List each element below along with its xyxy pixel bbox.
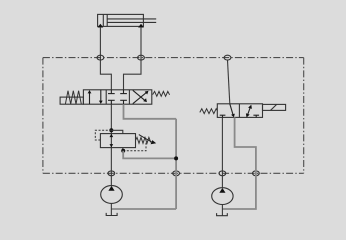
relief valve drain dashed xyxy=(123,143,146,151)
V1 center box blocked port A xyxy=(108,90,115,94)
boundary port ellipse (pilot top) xyxy=(224,55,231,60)
V2 right box flow arrow (double head) xyxy=(246,105,252,118)
wire V2 T jog to right xyxy=(222,117,256,209)
V1 center box blocked port T xyxy=(120,100,127,104)
junction dot relief inlet xyxy=(109,128,113,132)
junction dot T line xyxy=(174,156,178,160)
wire return to tank1 xyxy=(111,208,176,210)
relief valve adjustment arrow xyxy=(139,135,156,145)
enclosure boundary (dash-dot frame) xyxy=(43,58,304,174)
V2 left spring xyxy=(200,109,218,114)
V1 left spring zigzag xyxy=(65,91,81,104)
V1 center box blocked port P xyxy=(108,100,115,104)
relief valve RV1 inlet stub xyxy=(111,130,122,133)
pump P1 outlet triangle xyxy=(108,186,114,191)
wire pump1 to tank1 xyxy=(110,203,112,215)
pump P1 circle xyxy=(101,186,123,204)
V2 solenoid box xyxy=(263,104,286,110)
boundary port ellipse (return2) xyxy=(253,171,260,176)
boundary port ellipse (cyl left) xyxy=(97,55,104,60)
boundary port ellipse (pump2) xyxy=(219,171,226,176)
pilot wire top ellipse to V2 xyxy=(228,60,230,104)
cylinder port arrow left xyxy=(98,24,104,28)
relief valve pilot dashed line xyxy=(95,130,111,140)
pump P2 outlet triangle xyxy=(219,188,225,193)
pump P2 circle xyxy=(212,188,233,205)
V2 right box blocked port xyxy=(253,115,259,117)
cylinder port arrow right xyxy=(138,24,144,28)
relief valve RV1 body xyxy=(100,134,135,148)
wire T line valve1 jog xyxy=(124,104,177,119)
boundary port ellipse (return1) xyxy=(173,171,180,176)
relief valve outlet stub xyxy=(122,148,124,151)
tank T2 xyxy=(217,213,228,216)
V2 left box flow arrow xyxy=(230,104,235,118)
boundary port ellipse (cyl right) xyxy=(138,55,145,60)
V1 center box blocked port B xyxy=(120,90,127,94)
junction dot relief outlet xyxy=(121,149,125,153)
V2 left box blocked port xyxy=(220,115,226,117)
V1 left spring housing box xyxy=(60,97,83,104)
cylinder A1 (double-acting, rod right) xyxy=(98,14,157,26)
wire cylinder-right to valve port B xyxy=(124,27,142,90)
wire T line down right side xyxy=(175,119,177,209)
V1 right spring xyxy=(153,91,170,96)
directional valve V1 4/3 body xyxy=(83,90,151,104)
relief valve flow arrow (double head) xyxy=(110,134,114,147)
wire cylinder-left to valve port A xyxy=(100,27,111,90)
wire pump2 to tank2 xyxy=(221,205,223,216)
boundary port ellipse (pump1) xyxy=(108,171,115,176)
wire relief outlet to T line xyxy=(123,151,176,159)
relief valve spring xyxy=(136,137,151,143)
wire P line valve1 to pump1 xyxy=(110,104,112,186)
V1 left box up arrow xyxy=(88,90,92,104)
directional valve V2 3/2 body xyxy=(217,104,262,118)
tank T1 xyxy=(106,213,117,216)
V1 left box down arrow xyxy=(99,90,103,104)
V1 right box crossed arrows xyxy=(133,90,149,103)
wire V2 P to pump2 xyxy=(221,117,223,187)
